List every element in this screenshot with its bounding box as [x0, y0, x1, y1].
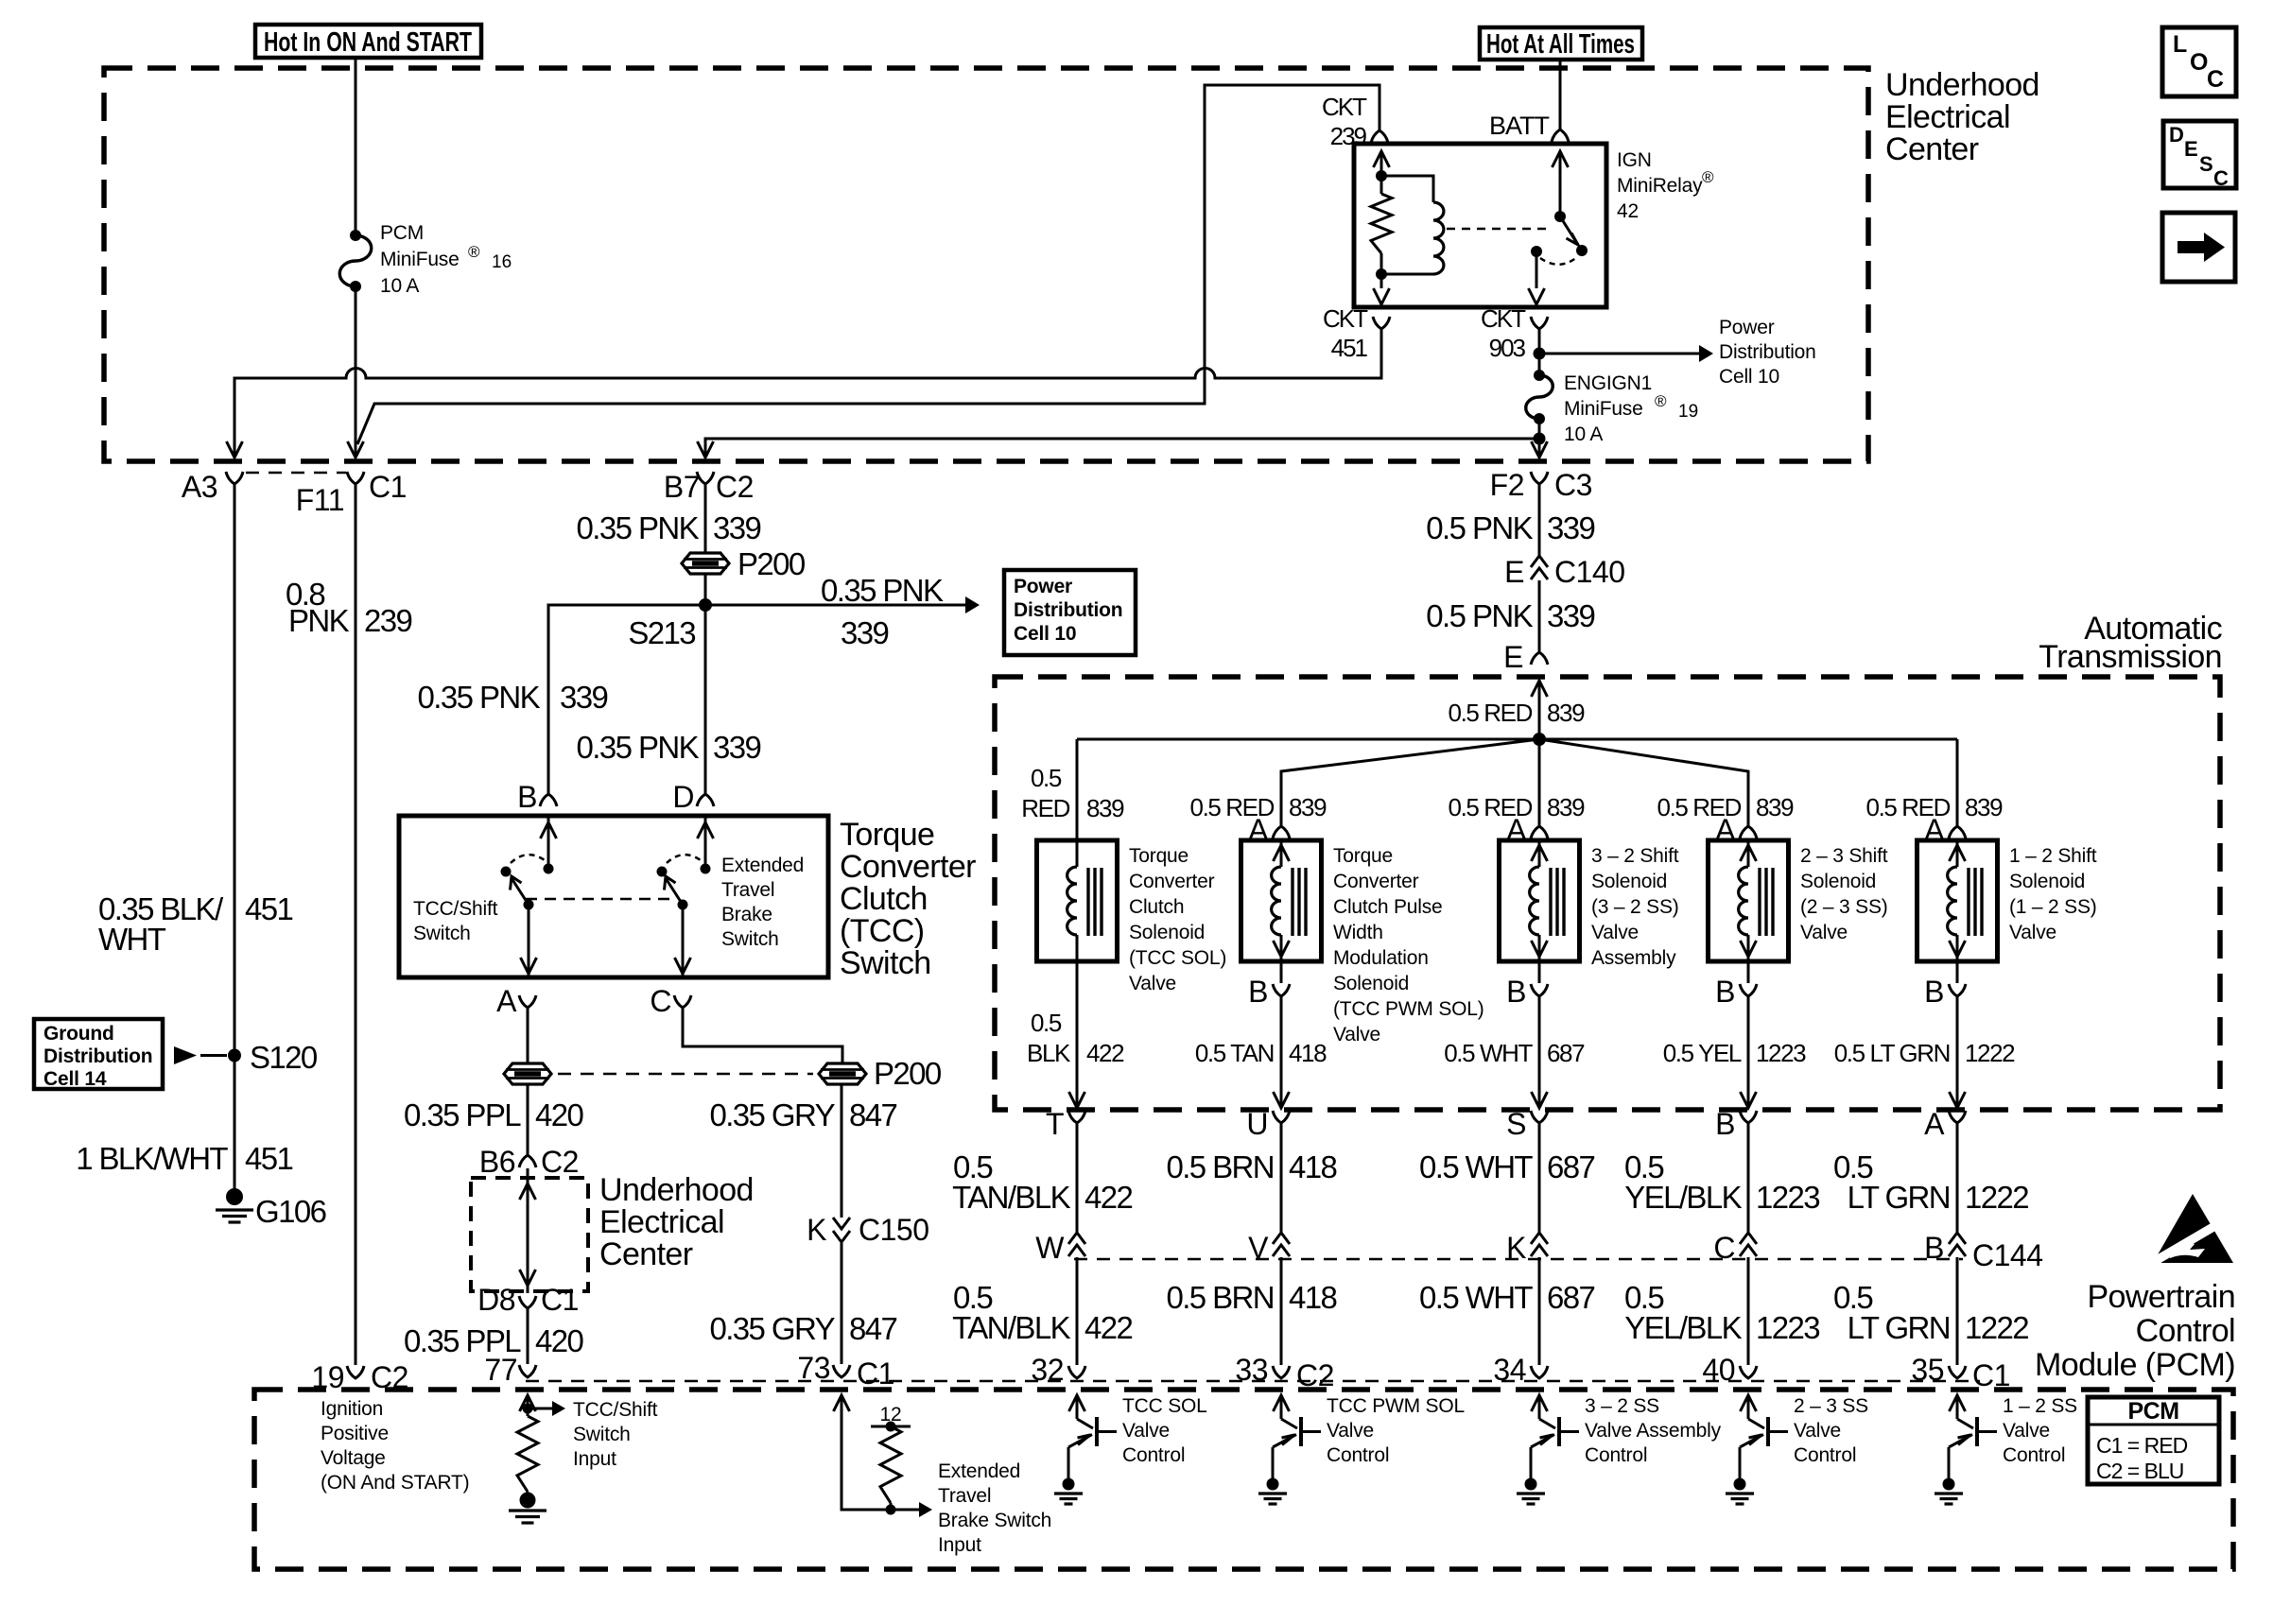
feeder drop to 1-2 shift solenoid: [1956, 739, 1959, 826]
ground (PCM driver TCC PWM SOL): [1267, 1478, 1279, 1491]
svg-text:239: 239: [364, 603, 412, 638]
svg-text:C: C: [2213, 166, 2229, 190]
ground (PCM driver TCC SOL): [1063, 1478, 1075, 1491]
svg-text:K: K: [807, 1213, 826, 1247]
svg-text:Switch: Switch: [840, 945, 931, 981]
header box "Hot At All Times": [1480, 27, 1642, 60]
wire emitter to ground (2 – 3 SS): [1739, 1447, 1742, 1480]
DESC reference box: [2163, 121, 2236, 188]
feeder drop to TCC solenoid: [1076, 739, 1079, 840]
svg-text:839: 839: [1756, 793, 1794, 821]
svg-text:(3 – 2 SS): (3 – 2 SS): [1591, 896, 1679, 918]
connector K / C150 (in-line): [833, 1218, 850, 1229]
svg-text:33: 33: [1235, 1353, 1268, 1387]
svg-text:(1 – 2 SS): (1 – 2 SS): [2009, 896, 2097, 918]
LOC reference box: [2162, 27, 2236, 96]
svg-text:1 – 2 Shift: 1 – 2 Shift: [2009, 845, 2097, 867]
svg-text:0.5 TAN: 0.5 TAN: [1195, 1039, 1274, 1067]
Underhood Electrical Center pass-through dashed box: [471, 1178, 588, 1291]
relay coil branch wire: [1381, 176, 1433, 202]
connector 33 (PCM pin): [1273, 1366, 1290, 1378]
svg-text:Travel: Travel: [721, 879, 774, 901]
svg-text:LT GRN: LT GRN: [1848, 1180, 1950, 1215]
wire emitter to ground (TCC PWM SOL): [1272, 1447, 1275, 1480]
svg-text:Distribution: Distribution: [1719, 341, 1816, 363]
ground (PCM internal, TCC/Shift): [520, 1493, 536, 1509]
relay coil: [1433, 202, 1444, 274]
solenoid TCC PWM solenoid core: [1291, 868, 1293, 936]
relay node (coil top): [1376, 170, 1387, 181]
solenoid 2-3 shift solenoid core: [1758, 868, 1761, 936]
svg-text:(TCC PWM SOL): (TCC PWM SOL): [1333, 998, 1484, 1020]
svg-text:0.5 RED: 0.5 RED: [1449, 793, 1533, 821]
connector P200 (right half): [819, 1063, 866, 1084]
ground (PCM driver 3 – 2 SS): [1525, 1478, 1537, 1491]
svg-text:ENGIGN1: ENGIGN1: [1564, 372, 1652, 394]
svg-text:687: 687: [1547, 1280, 1595, 1315]
svg-text:BLK: BLK: [1027, 1039, 1071, 1067]
Ground Distribution Cell 14 box: [34, 1019, 163, 1089]
svg-text:0.5 WHT: 0.5 WHT: [1444, 1039, 1533, 1067]
svg-text:847: 847: [849, 1097, 897, 1132]
svg-text:WHT: WHT: [98, 922, 166, 957]
wire emitter to ground (3 – 2 SS): [1530, 1447, 1533, 1480]
svg-text:19: 19: [1678, 402, 1698, 422]
svg-text:Valve: Valve: [2003, 1420, 2050, 1442]
svg-text:420: 420: [535, 1097, 584, 1132]
wire 0.35 PPL 420 (P200 to B6): [527, 1085, 529, 1155]
svg-text:G106: G106: [255, 1194, 326, 1229]
wire A to C144: [1956, 1123, 1959, 1235]
fuse ENGIGN1 MiniFuse 19 (10 A): [1538, 354, 1541, 375]
svg-text:E: E: [1503, 640, 1523, 674]
svg-text:0.5: 0.5: [1031, 1009, 1062, 1037]
svg-text:839: 839: [1965, 793, 2003, 821]
solenoid 2-3 shift solenoid winding: [1747, 840, 1750, 867]
svg-text:1222: 1222: [1965, 1180, 2028, 1215]
transistor TCC PWM SOL driver: [1281, 1419, 1297, 1428]
svg-text:Solenoid: Solenoid: [2009, 871, 2085, 892]
svg-text:12: 12: [880, 1404, 902, 1425]
svg-text:Control: Control: [1327, 1444, 1389, 1466]
svg-text:0.35 PNK: 0.35 PNK: [577, 730, 700, 765]
svg-text:0.35 PNK: 0.35 PNK: [577, 510, 700, 545]
svg-text:418: 418: [1289, 1039, 1327, 1067]
relay switch blade tip contact: [1576, 245, 1588, 256]
wire W to PCM 32: [1076, 1257, 1079, 1365]
wire 0.5 BLK 422 (TCC solenoid to T): [1076, 961, 1079, 1108]
wire 451: relay CKT 451 to connector A3 (horizontal with hops): [234, 329, 1381, 456]
svg-text:Control: Control: [1122, 1444, 1185, 1466]
wire 0.5 YEL 1223 to transmission boundary: [1747, 996, 1750, 1108]
svg-text:A: A: [496, 984, 517, 1018]
svg-text:422: 422: [1084, 1310, 1133, 1345]
svg-text:Hot In ON And START: Hot In ON And START: [264, 27, 472, 58]
wire C to PCM 40: [1747, 1257, 1750, 1365]
svg-text:422: 422: [1084, 1180, 1133, 1215]
svg-text:451: 451: [245, 1141, 293, 1176]
svg-text:A3: A3: [182, 470, 217, 504]
relay coil output arrow to CKT 451: [1380, 253, 1383, 288]
svg-text:S120: S120: [250, 1040, 318, 1075]
connector 40 (PCM pin): [1740, 1366, 1757, 1378]
svg-text:2 – 3 Shift: 2 – 3 Shift: [1800, 845, 1888, 867]
connector B7 / C2: [697, 472, 714, 484]
connector CKT 451 (relay output): [1373, 317, 1390, 329]
svg-text:Brake: Brake: [721, 904, 772, 925]
svg-text:Module (PCM): Module (PCM): [2035, 1347, 2235, 1383]
node: TCC/Shift input junction: [523, 1404, 533, 1414]
svg-text:0.5 BRN: 0.5 BRN: [1166, 1280, 1274, 1315]
svg-text:0.35 GRY: 0.35 GRY: [709, 1097, 835, 1132]
Extended Travel Brake switch: travel dashed arc: [667, 855, 701, 863]
ground G106: [226, 1188, 243, 1205]
svg-text:C140: C140: [1554, 555, 1625, 589]
svg-text:C1: C1: [369, 470, 407, 504]
svg-text:Control: Control: [1794, 1444, 1856, 1466]
svg-text:0.35 PPL: 0.35 PPL: [404, 1097, 521, 1132]
wire branch S213 to switch pin B: [548, 605, 705, 794]
svg-text:0.35 GRY: 0.35 GRY: [709, 1311, 835, 1346]
node: CKT903 junction to Power Distribution: [1534, 348, 1546, 360]
svg-text:Solenoid: Solenoid: [1333, 973, 1409, 994]
svg-text:B7: B7: [664, 470, 700, 504]
dashed connector link A3-F11: [246, 472, 346, 475]
connector V / C144 (in-line): [1273, 1233, 1290, 1244]
connector B / C144 (in-line): [1949, 1233, 1966, 1244]
svg-text:Power: Power: [1719, 317, 1775, 338]
relay node (coil bottom): [1376, 268, 1387, 280]
PCM driver arrow (1 – 2 SS): [1950, 1395, 1966, 1411]
Power Distribution Cell 10 box (middle): [1004, 570, 1136, 655]
svg-text:S: S: [2199, 152, 2213, 176]
forward arrow box: [2162, 213, 2235, 282]
splice S213: [699, 598, 712, 612]
pointer from Ground Distribution to S120: [174, 1046, 197, 1064]
svg-text:Voltage: Voltage: [321, 1447, 386, 1469]
connector A (TCC PWM solenoid): [1273, 826, 1290, 838]
connector C / C144 (in-line): [1740, 1233, 1757, 1244]
svg-text:U: U: [1246, 1107, 1268, 1141]
solenoid TCC solenoid core: [1086, 868, 1089, 936]
svg-text:TCC/Shift: TCC/Shift: [413, 898, 498, 920]
solenoid 1-2 shift solenoid winding: [1956, 840, 1959, 867]
svg-text:BATT: BATT: [1489, 112, 1550, 140]
wire emitter to ground (TCC SOL): [1067, 1447, 1070, 1480]
svg-text:(TCC SOL): (TCC SOL): [1129, 947, 1226, 969]
wire emitter to ground (1 – 2 SS): [1948, 1447, 1951, 1480]
svg-text:Cell 10: Cell 10: [1014, 623, 1076, 645]
svg-text:0.5 RED: 0.5 RED: [1449, 699, 1533, 727]
svg-text:Electrical: Electrical: [599, 1204, 724, 1240]
svg-text:CKT: CKT: [1322, 93, 1367, 121]
svg-text:(TCC): (TCC): [840, 913, 925, 949]
svg-text:35: 35: [1911, 1353, 1944, 1387]
wire B to C144: [1747, 1123, 1750, 1235]
svg-text:3 – 2 SS: 3 – 2 SS: [1585, 1395, 1659, 1417]
svg-text:Center: Center: [599, 1236, 693, 1272]
svg-text:B: B: [1924, 975, 1944, 1009]
svg-text:B: B: [1506, 975, 1526, 1009]
svg-text:Torque: Torque: [1333, 845, 1393, 867]
svg-text:Positive: Positive: [321, 1423, 389, 1444]
wire 0.35 PNK 339 (B7 to P200): [704, 484, 707, 552]
svg-text:Underhood: Underhood: [599, 1172, 754, 1208]
svg-text:Valve: Valve: [1800, 922, 1848, 943]
svg-text:10 A: 10 A: [380, 275, 419, 297]
svg-text:10 A: 10 A: [1564, 423, 1603, 445]
svg-text:MiniRelay: MiniRelay: [1617, 175, 1703, 197]
connector 73 / C1 (PCM): [833, 1365, 850, 1377]
svg-text:Transmission: Transmission: [2039, 639, 2222, 675]
svg-text:Valve: Valve: [1794, 1420, 1841, 1442]
svg-text:MiniFuse: MiniFuse: [380, 249, 460, 270]
svg-text:F11: F11: [296, 483, 344, 517]
dashed connector row line (PCM top): [526, 1380, 1980, 1383]
connector E (transmission): [1531, 652, 1548, 665]
PCM driver arrow (TCC SOL): [1069, 1395, 1085, 1411]
svg-text:903: 903: [1489, 334, 1526, 362]
relay switch pivot: [1554, 211, 1566, 222]
connector K / C144 (in-line): [1531, 1233, 1548, 1244]
svg-text:TCC PWM SOL: TCC PWM SOL: [1327, 1395, 1465, 1417]
mechanical link dashed line between blades: [526, 898, 675, 901]
svg-text:339: 339: [1547, 510, 1595, 545]
connector P200 (left half): [504, 1063, 551, 1084]
svg-text:MiniFuse: MiniFuse: [1564, 398, 1643, 420]
svg-text:Valve: Valve: [1327, 1420, 1374, 1442]
svg-text:O: O: [2190, 49, 2208, 76]
svg-text:839: 839: [1289, 793, 1327, 821]
connector 77 (PCM): [519, 1365, 536, 1377]
wire S213 down to switch pin D: [704, 605, 707, 794]
svg-text:Solenoid: Solenoid: [1800, 871, 1876, 892]
feeder diagonal to TCC PWM solenoid: [1281, 739, 1539, 826]
relay coil input pin arrow: [1374, 151, 1390, 167]
svg-text:339: 339: [841, 615, 889, 650]
wire 0.35 GRY 847 (P200 to C150): [841, 1085, 843, 1218]
svg-text:34: 34: [1493, 1353, 1526, 1387]
solenoid 3-2 shift solenoid box: [1500, 840, 1580, 961]
svg-text:TAN/BLK: TAN/BLK: [952, 1310, 1070, 1345]
fuse PCM MiniFuse 16 (10 A): [350, 230, 361, 241]
svg-text:Width: Width: [1333, 922, 1383, 943]
connector 35 (PCM pin): [1949, 1366, 1966, 1378]
wire U to C144: [1280, 1123, 1283, 1235]
svg-text:Switch: Switch: [413, 923, 471, 944]
svg-text:Valve Assembly: Valve Assembly: [1585, 1420, 1722, 1442]
svg-text:1222: 1222: [1965, 1310, 2028, 1345]
svg-text:Hot At All Times: Hot At All Times: [1486, 29, 1635, 60]
svg-text:418: 418: [1289, 1149, 1337, 1184]
connector CKT 903 (relay output): [1531, 317, 1548, 329]
svg-text:T: T: [1046, 1107, 1064, 1141]
wire 0.5 PNK 339 (F2 to C140): [1538, 484, 1541, 558]
svg-text:73: 73: [797, 1351, 830, 1385]
svg-text:Modulation: Modulation: [1333, 947, 1429, 969]
connector B (transmission output): [1740, 1111, 1757, 1123]
wire P200 to splice S213: [704, 575, 707, 605]
dashed connector row line C144: [1074, 1258, 1963, 1261]
svg-text:®: ®: [468, 243, 480, 261]
Powertrain Control Module (PCM) dashed box: [254, 1390, 2233, 1569]
svg-text:Valve: Valve: [1122, 1420, 1170, 1442]
wire 239: relay CKT 239 feed to connector C1: [357, 85, 1379, 444]
connector P200 (pink feed): [682, 553, 729, 574]
svg-text:Converter: Converter: [1129, 871, 1215, 892]
wire 0.35 GRY 847 (C150 to PCM 73): [841, 1243, 843, 1364]
feeder wire 839 across solenoids: [1077, 738, 1957, 741]
svg-text:Input: Input: [573, 1448, 616, 1470]
Automatic Transmission dashed box: [995, 677, 2220, 1110]
svg-text:0.5 YEL: 0.5 YEL: [1663, 1039, 1742, 1067]
svg-text:Solenoid: Solenoid: [1591, 871, 1667, 892]
wire 0.5 PNK 339 (C140 to E): [1538, 580, 1541, 652]
svg-text:0.5 RED: 0.5 RED: [1190, 793, 1275, 821]
svg-text:A: A: [1924, 1107, 1945, 1141]
arrow into F2 connector: [1538, 439, 1541, 456]
svg-text:PNK: PNK: [288, 603, 350, 638]
svg-text:IGN: IGN: [1617, 149, 1652, 171]
connector 19 / C2 (PCM): [347, 1366, 364, 1378]
svg-text:CKT: CKT: [1323, 304, 1368, 333]
connector B (2-3 shift solenoid): [1747, 961, 1750, 983]
feeder diagonal to 2-3 shift solenoid: [1539, 739, 1748, 826]
svg-text:418: 418: [1289, 1280, 1337, 1315]
svg-text:D: D: [2169, 123, 2184, 147]
svg-text:Torque: Torque: [1129, 845, 1189, 867]
svg-text:32: 32: [1031, 1353, 1064, 1387]
svg-text:Cell 14: Cell 14: [43, 1068, 107, 1090]
connector E / C140 (in-line): [1531, 556, 1548, 567]
svg-text:®: ®: [1702, 168, 1714, 186]
svg-text:C2 = BLU: C2 = BLU: [2096, 1459, 2183, 1483]
svg-text:C2: C2: [716, 470, 754, 504]
relay switch travel dashed arc: [1540, 257, 1577, 265]
svg-text:Switch: Switch: [721, 928, 779, 950]
svg-text:2 – 3 SS: 2 – 3 SS: [1794, 1395, 1868, 1417]
svg-text:687: 687: [1547, 1149, 1595, 1184]
svg-text:Control: Control: [1585, 1444, 1647, 1466]
svg-text:0.5 PNK: 0.5 PNK: [1426, 598, 1533, 633]
relay resistor (coil suppression): [1380, 176, 1383, 194]
svg-text:C150: C150: [859, 1213, 929, 1247]
solenoid TCC solenoid winding: [1076, 840, 1079, 867]
wire C to P200 (jog right): [683, 1008, 842, 1063]
TCC/Shift switch: blade with arrow: [512, 878, 529, 905]
connector B (TCC switch): [540, 794, 557, 806]
solenoid 3-2 shift solenoid core: [1549, 868, 1552, 936]
wire+arrow to Power Distribution Cell 10 (top): [1539, 353, 1700, 355]
ground (PCM driver 2 – 3 SS): [1734, 1478, 1746, 1491]
svg-text:839: 839: [1547, 699, 1585, 727]
svg-text:E: E: [2184, 137, 2198, 161]
svg-text:42: 42: [1617, 200, 1639, 222]
svg-text:1223: 1223: [1756, 1310, 1819, 1345]
connector D (TCC switch): [697, 794, 714, 806]
svg-text:1222: 1222: [1965, 1039, 2015, 1067]
svg-text:LT GRN: LT GRN: [1848, 1310, 1950, 1345]
wire 239: C1 down to PCM pin 19 (0.8 PNK): [355, 484, 357, 1365]
svg-text:Control: Control: [2003, 1444, 2065, 1466]
wire T to C144: [1076, 1123, 1079, 1235]
TCC/Shift switch: pin B stub with arrow: [547, 816, 550, 869]
svg-text:Electrical: Electrical: [1885, 99, 2010, 135]
PCM pull-up resistor 12 (Extended Travel Brake): [871, 1425, 911, 1428]
connector W / C144 (in-line): [1068, 1233, 1085, 1244]
solenoid 1-2 shift solenoid box: [1917, 840, 1998, 961]
svg-text:Cell 10: Cell 10: [1719, 366, 1779, 388]
wire A to P200: [527, 1008, 529, 1063]
svg-text:(ON And START): (ON And START): [321, 1472, 469, 1494]
connector T (transmission output): [1068, 1111, 1085, 1123]
svg-text:1223: 1223: [1756, 1180, 1819, 1215]
solenoid 1-2 shift solenoid core: [1967, 868, 1969, 936]
solenoid TCC PWM solenoid box: [1241, 840, 1322, 961]
svg-text:Converter: Converter: [840, 849, 976, 885]
dashed link between P200 halves: [558, 1073, 813, 1076]
svg-text:TCC SOL: TCC SOL: [1122, 1395, 1207, 1417]
svg-text:W: W: [1035, 1231, 1065, 1265]
connector S (transmission output): [1531, 1111, 1548, 1123]
svg-text:Ignition: Ignition: [321, 1398, 383, 1420]
PCM pull-down resistor (TCC/Shift input): [517, 1416, 538, 1492]
svg-text:Solenoid: Solenoid: [1129, 922, 1205, 943]
connector B (1-2 shift solenoid): [1956, 961, 1959, 983]
svg-text:Ground: Ground: [43, 1023, 114, 1045]
solenoid TCC solenoid box: [1037, 840, 1118, 961]
connector A (2-3 shift solenoid): [1740, 826, 1757, 838]
svg-text:C1 = RED: C1 = RED: [2096, 1433, 2188, 1458]
connector B (3-2 shift solenoid): [1538, 961, 1541, 983]
svg-text:0.5: 0.5: [1031, 764, 1062, 792]
svg-text:Valve: Valve: [1591, 922, 1639, 943]
svg-text:339: 339: [1547, 598, 1595, 633]
relay IGN MiniRelay 42 box: [1354, 144, 1606, 307]
connector A3: [226, 472, 243, 484]
PCM driver arrow (TCC PWM SOL): [1274, 1395, 1290, 1411]
PCM connector legend box: [2088, 1397, 2219, 1484]
transistor 2 – 3 SS driver: [1748, 1419, 1764, 1428]
svg-text:B: B: [1248, 975, 1268, 1009]
svg-text:B: B: [517, 780, 537, 814]
svg-text:Torque: Torque: [840, 817, 934, 853]
ESD sensitivity symbol: [2153, 1194, 2233, 1263]
svg-text:C1: C1: [541, 1283, 579, 1317]
svg-text:3 – 2 Shift: 3 – 2 Shift: [1591, 845, 1679, 867]
svg-text:Switch: Switch: [573, 1424, 631, 1445]
transistor 1 – 2 SS driver: [1957, 1419, 1973, 1428]
connector A (TCC switch output): [519, 995, 536, 1008]
svg-text:451: 451: [1331, 334, 1368, 362]
solenoid 3-2 shift solenoid winding: [1538, 840, 1541, 867]
relay switch output contact: [1531, 246, 1542, 257]
svg-text:0.5 PNK: 0.5 PNK: [1426, 510, 1533, 545]
svg-text:Valve: Valve: [2009, 922, 2056, 943]
svg-text:Power: Power: [1014, 576, 1072, 597]
svg-text:Travel: Travel: [938, 1485, 991, 1507]
wire 339: ENGIGN1 fuse output to connector B7 and F2: [705, 439, 1539, 456]
svg-text:339: 339: [560, 680, 608, 715]
svg-text:Powertrain: Powertrain: [2087, 1279, 2235, 1315]
transistor 3 – 2 SS driver: [1539, 1419, 1555, 1428]
wire S to C144: [1538, 1123, 1541, 1235]
node: ENGIGN1 output junction: [1534, 433, 1546, 445]
svg-text:Extended: Extended: [721, 855, 804, 876]
svg-text:Control: Control: [2136, 1313, 2235, 1349]
transistor TCC SOL driver: [1077, 1419, 1093, 1428]
svg-text:0.5 LT GRN: 0.5 LT GRN: [1834, 1039, 1950, 1067]
